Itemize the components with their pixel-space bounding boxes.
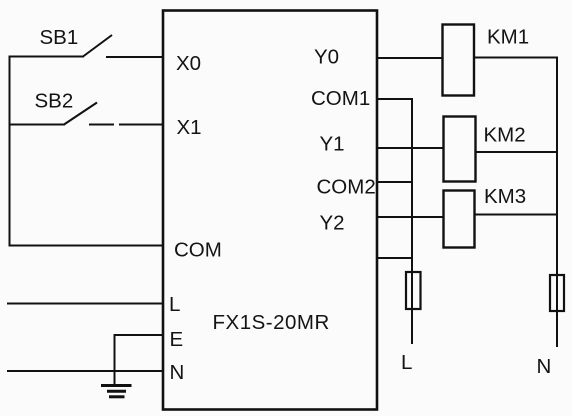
svg-text:X1: X1: [177, 116, 202, 139]
pushbutton SB1 blade: [83, 35, 112, 57]
wire lower stub to fuse branch: [376, 257, 413, 259]
wire L supply input: [7, 303, 164, 305]
svg-text:COM1: COM1: [311, 87, 370, 110]
svg-text:SB1: SB1: [40, 26, 79, 49]
svg-text:KM1: KM1: [487, 26, 529, 49]
ground symbol: [101, 386, 132, 397]
svg-text:COM2: COM2: [317, 176, 376, 199]
contactor coil KM3: [444, 191, 475, 248]
svg-text:KM3: KM3: [484, 185, 526, 208]
fuse FU2: [550, 275, 564, 311]
wire Y1 to KM2: [376, 147, 444, 149]
wire X1 dashed segment 1: [89, 124, 114, 126]
contactor coil KM2: [444, 117, 476, 182]
wire left rail: [9, 56, 11, 247]
contactor coil KM1: [443, 25, 475, 96]
svg-text:X0: X0: [176, 52, 201, 75]
svg-text:E: E: [170, 328, 184, 351]
wire E to ground: [115, 335, 165, 385]
wire KM3 to right rail: [474, 214, 558, 216]
svg-text:Y1: Y1: [320, 133, 345, 156]
wire KM2 to right rail: [475, 151, 558, 153]
wire KM1 to right rail: [474, 57, 558, 59]
wire N supply input: [7, 370, 164, 372]
fuse FU1: [406, 272, 421, 309]
svg-text:FX1S-20MR: FX1S-20MR: [213, 311, 330, 334]
svg-text:N: N: [170, 361, 185, 384]
wire COM2 stub: [376, 181, 413, 183]
wire X1 left segment: [9, 124, 66, 126]
svg-text:COM: COM: [174, 239, 222, 262]
svg-text:L: L: [169, 293, 180, 316]
wire Y2 to KM3: [376, 216, 444, 218]
svg-text:SB2: SB2: [35, 90, 74, 113]
wire X0 right segment: [106, 56, 164, 58]
wire X1 dashed segment 2: [119, 124, 164, 126]
wire COM return: [9, 245, 165, 247]
wire COM1 down to fuse: [376, 99, 412, 344]
svg-text:Y2: Y2: [320, 212, 345, 235]
svg-text:L: L: [401, 351, 412, 374]
wire Y0 to KM1: [376, 57, 443, 59]
svg-text:N: N: [537, 355, 552, 378]
pushbutton SB2 blade: [64, 103, 97, 125]
wire X0 left segment: [9, 56, 85, 58]
wire right rail: [556, 58, 558, 348]
svg-text:Y0: Y0: [314, 46, 339, 69]
PLC U1 FX1S-20MR body: [163, 11, 377, 410]
svg-text:KM2: KM2: [484, 124, 526, 147]
